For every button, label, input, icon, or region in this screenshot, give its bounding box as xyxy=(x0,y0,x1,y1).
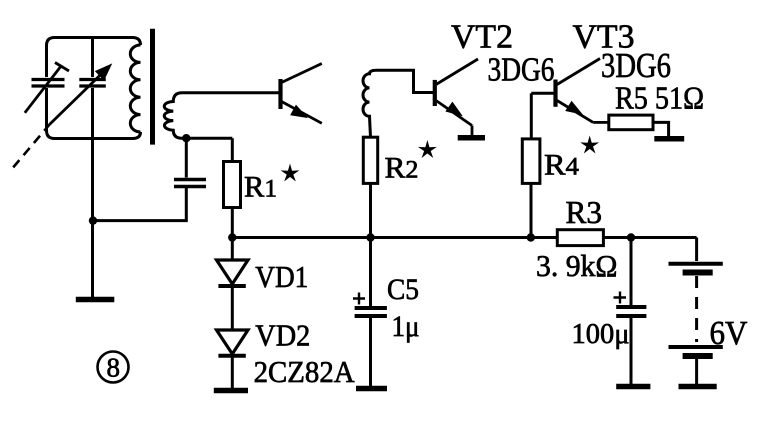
wire bus to C6 xyxy=(630,238,633,306)
wire box divider xyxy=(91,38,94,298)
svg-text:R3: R3 xyxy=(566,194,603,230)
wire battery to ground xyxy=(695,359,698,384)
node bus R4 xyxy=(527,233,535,241)
wire R1 to bus xyxy=(231,208,234,238)
variable capacitor C1b plates xyxy=(79,80,106,87)
resistor R3 xyxy=(557,230,603,246)
svg-text:6V: 6V xyxy=(710,315,748,352)
transformer primary winding L1 xyxy=(130,45,140,132)
wire bus to battery xyxy=(695,238,698,262)
capacitor C6 polarity plus xyxy=(614,292,627,304)
label R2 star xyxy=(420,142,436,157)
wire R5 to ground xyxy=(653,122,669,136)
transistor VT1 xyxy=(278,79,282,109)
ground terminal left xyxy=(76,297,115,303)
wire C5 to ground xyxy=(369,316,372,388)
ground terminal C6 xyxy=(616,384,650,390)
wire bus to VD1 xyxy=(231,238,234,260)
transformer core xyxy=(150,29,155,145)
figure number circle 8 xyxy=(98,352,129,383)
capacitor C5 polarity plus xyxy=(353,293,365,305)
capacitor C (fixed) xyxy=(174,180,206,187)
transistor VT3 xyxy=(553,80,557,107)
wire R2 to bus xyxy=(369,183,372,237)
inductor L3 xyxy=(363,70,435,137)
wire main bus xyxy=(232,236,696,239)
svg-text:3DG6: 3DG6 xyxy=(488,52,555,89)
svg-text:C5: C5 xyxy=(387,273,419,306)
battery GB 6V cell 1 xyxy=(669,262,723,266)
node bus R1 xyxy=(228,233,236,241)
svg-text:R5 51Ω: R5 51Ω xyxy=(615,80,704,116)
node bus R2 xyxy=(366,233,374,241)
svg-text:VT2: VT2 xyxy=(451,19,513,56)
label R1 star xyxy=(282,165,298,180)
wire C6 to ground xyxy=(630,316,633,385)
wire R4 to bus xyxy=(530,183,533,237)
ground terminal VT2 xyxy=(458,135,485,141)
diode VD1 xyxy=(217,260,249,284)
svg-text:8: 8 xyxy=(107,353,121,383)
transformer secondary winding L2 xyxy=(164,93,280,138)
node secondary bottom junction xyxy=(182,134,190,142)
svg-text:100μ: 100μ xyxy=(572,318,630,350)
svg-text:VD1: VD1 xyxy=(255,259,308,294)
wire cap to ground bus xyxy=(93,188,186,221)
resistor R1 xyxy=(224,162,241,208)
wire VD1 to VD2 xyxy=(231,286,234,330)
svg-text:3. 9kΩ: 3. 9kΩ xyxy=(536,248,618,283)
capacitor C6 100u xyxy=(616,305,646,309)
svg-text:1μ: 1μ xyxy=(392,310,420,343)
tank circuit box xyxy=(47,38,141,78)
resistor R4 xyxy=(522,139,540,184)
ground terminal C5 xyxy=(356,386,387,392)
svg-text:2CZ82A: 2CZ82A xyxy=(254,354,356,389)
label R4 star xyxy=(582,137,598,152)
wire bus to C5 xyxy=(369,238,372,307)
svg-text:R4: R4 xyxy=(544,149,580,182)
ground terminal battery xyxy=(679,384,717,390)
svg-text:R1: R1 xyxy=(244,171,277,204)
capacitor C5 xyxy=(355,306,387,310)
wire secondary to R1 xyxy=(231,138,234,161)
gang dashed link xyxy=(13,124,49,167)
variable capacitor C1a arrow xyxy=(25,66,61,113)
node bus right xyxy=(627,233,635,241)
battery GB 6V cell 2 xyxy=(669,345,723,349)
resistor R5 xyxy=(609,115,653,130)
battery dashed link xyxy=(695,276,698,342)
variable capacitor C1b arrow xyxy=(50,71,104,124)
resistor R2 xyxy=(363,137,377,183)
wire VD2 to terminal xyxy=(231,356,234,391)
svg-text:VD2: VD2 xyxy=(255,318,310,353)
ground terminal R5 xyxy=(654,136,684,142)
ground terminal diodes xyxy=(214,388,248,394)
diode VD2 xyxy=(217,330,249,354)
wire junction to cap xyxy=(185,138,188,177)
wire VT3 base to R4 xyxy=(530,93,533,139)
svg-text:R2: R2 xyxy=(385,152,419,185)
variable capacitor C1a plates xyxy=(32,80,65,87)
node left ground junction xyxy=(89,216,97,224)
transistor VT2 xyxy=(433,80,437,106)
